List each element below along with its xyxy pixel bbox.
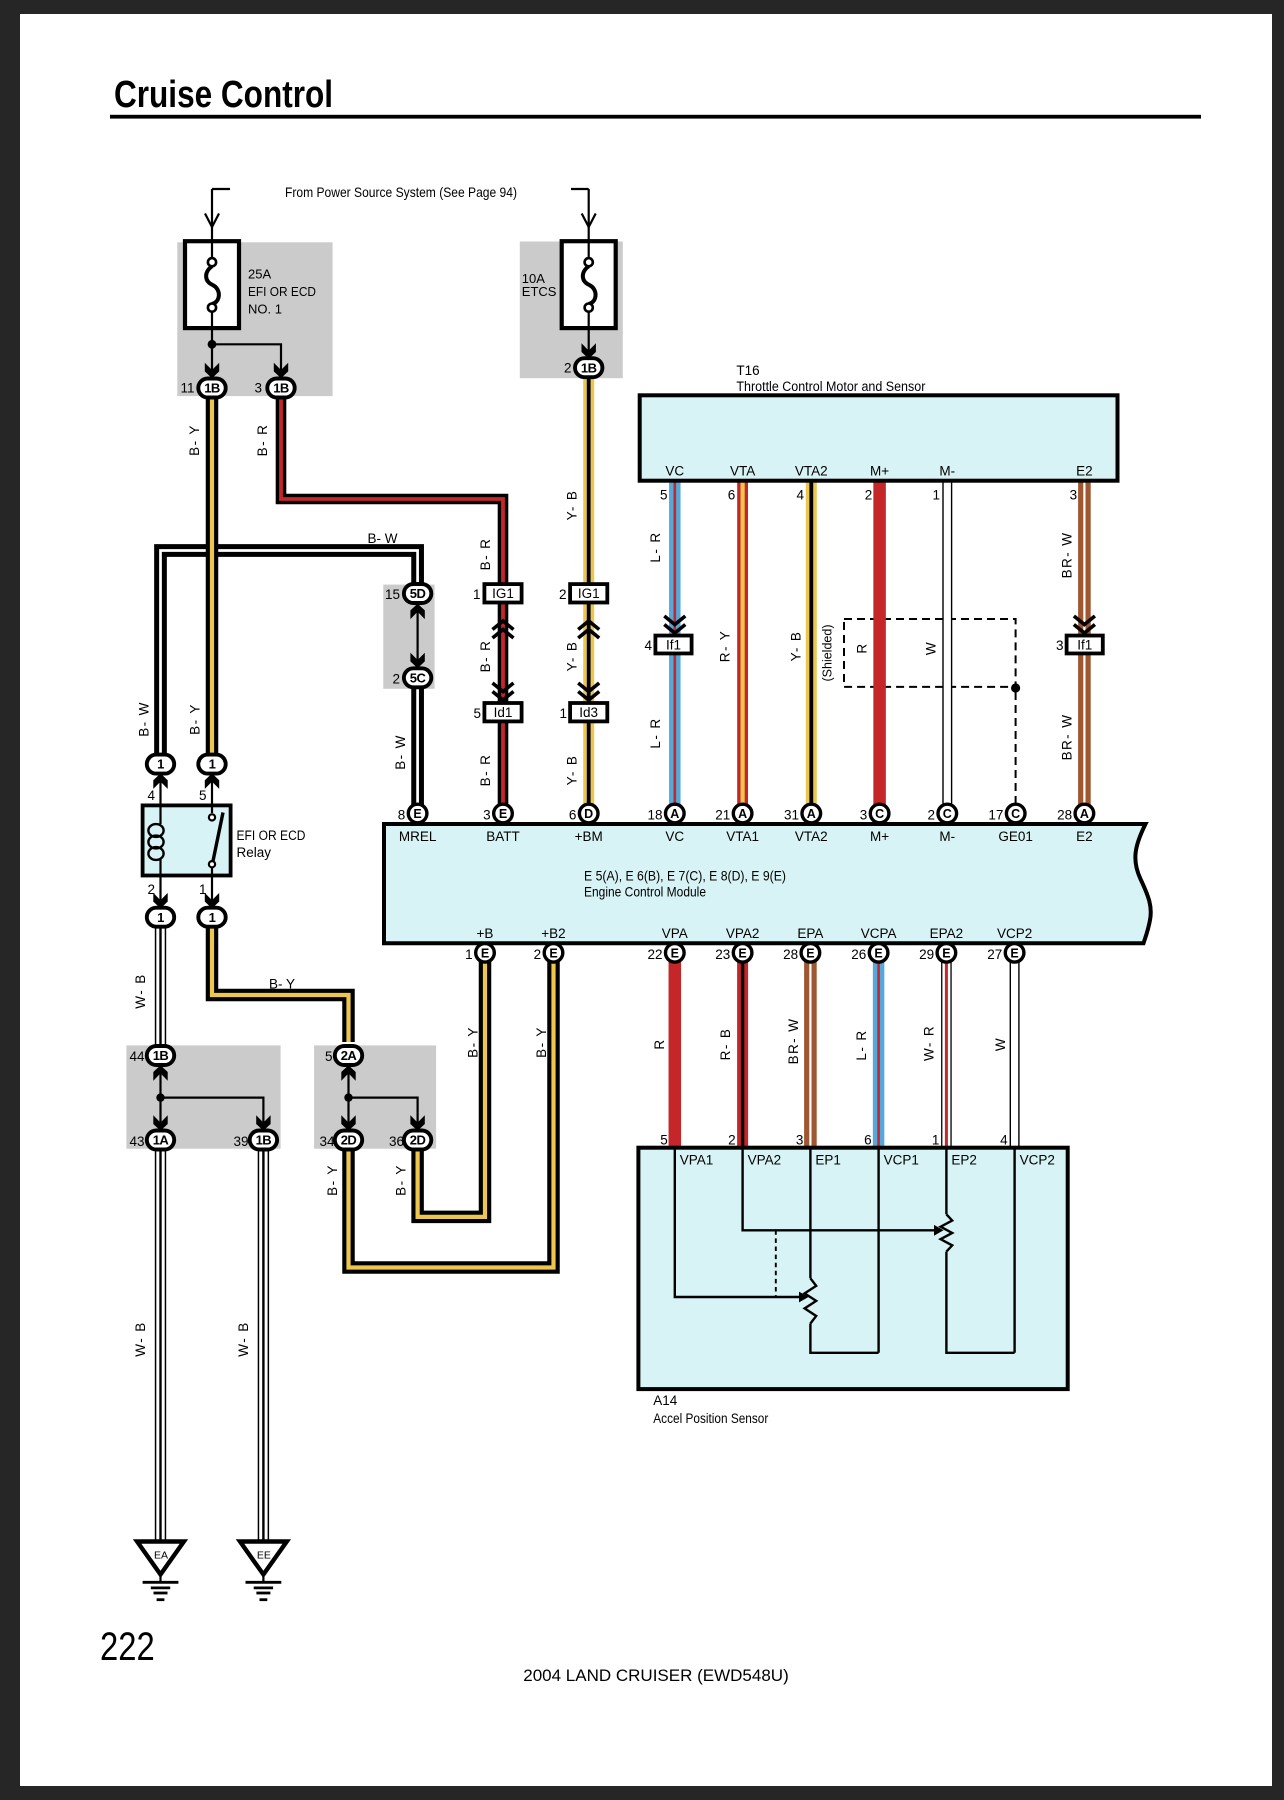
svg-text:2: 2 [147, 882, 155, 897]
svg-text:43: 43 [129, 1134, 144, 1149]
svg-text:EPA2: EPA2 [930, 926, 964, 941]
svg-text:E: E [874, 946, 882, 960]
svg-text:R- B: R- B [718, 1028, 733, 1061]
svg-text:2: 2 [927, 808, 935, 823]
svg-text:5: 5 [660, 1133, 668, 1148]
svg-text:Y- B: Y- B [565, 755, 580, 786]
svg-text:VPA1: VPA1 [680, 1153, 714, 1168]
svg-text:4: 4 [147, 788, 155, 803]
svg-text:2A: 2A [341, 1048, 358, 1063]
svg-text:3: 3 [796, 1133, 804, 1148]
svg-text:5: 5 [199, 788, 207, 803]
svg-text:EP2: EP2 [951, 1153, 977, 1168]
svg-text:44: 44 [129, 1049, 145, 1064]
svg-text:36: 36 [389, 1134, 404, 1149]
svg-text:B- Y: B- Y [269, 977, 295, 992]
svg-text:EPA: EPA [797, 926, 823, 941]
svg-text:B- R: B- R [478, 754, 493, 787]
svg-text:4: 4 [1000, 1133, 1008, 1148]
svg-text:E: E [499, 807, 507, 821]
svg-text:B- R: B- R [478, 538, 493, 571]
svg-text:(Shielded): (Shielded) [821, 625, 835, 682]
svg-text:E: E [413, 807, 421, 821]
svg-text:B- W: B- W [136, 701, 151, 737]
svg-text:M-: M- [939, 829, 955, 844]
svg-text:5: 5 [473, 706, 481, 721]
svg-text:Relay: Relay [237, 845, 272, 860]
svg-text:GE01: GE01 [998, 829, 1033, 844]
svg-text:1: 1 [209, 757, 216, 772]
svg-text:VTA2: VTA2 [795, 464, 828, 479]
svg-text:1B: 1B [256, 1133, 272, 1148]
svg-text:E 5(A), E 6(B), E 7(C), E 8(D): E 5(A), E 6(B), E 7(C), E 8(D), E 9(E) [584, 868, 786, 884]
svg-text:EFI OR ECD: EFI OR ECD [237, 828, 306, 843]
svg-text:5: 5 [660, 488, 668, 503]
svg-text:A: A [807, 807, 816, 821]
svg-text:2D: 2D [341, 1133, 357, 1148]
svg-text:B- R: B- R [478, 640, 493, 673]
svg-text:B- Y: B- Y [187, 424, 202, 456]
svg-text:8: 8 [398, 808, 406, 823]
svg-text:3: 3 [1056, 638, 1064, 653]
svg-text:B- Y: B- Y [534, 1026, 549, 1058]
svg-text:A: A [1080, 807, 1089, 821]
svg-text:25A: 25A [248, 267, 271, 282]
svg-text:29: 29 [919, 947, 934, 962]
svg-text:R- Y: R- Y [718, 630, 733, 662]
svg-text:B- Y: B- Y [325, 1164, 340, 1196]
svg-text:1: 1 [465, 947, 473, 962]
svg-text:E: E [942, 946, 950, 960]
svg-text:EFI OR ECD: EFI OR ECD [248, 284, 316, 299]
svg-text:4: 4 [644, 638, 652, 653]
svg-text:1B: 1B [153, 1048, 169, 1063]
svg-text:Id1: Id1 [494, 705, 513, 720]
svg-text:BR- W: BR- W [1060, 714, 1075, 761]
svg-text:1: 1 [157, 757, 164, 772]
svg-text:IG1: IG1 [578, 586, 600, 601]
svg-text:W- R: W- R [922, 1025, 937, 1061]
svg-text:E: E [481, 946, 489, 960]
svg-text:21: 21 [715, 808, 730, 823]
svg-text:22: 22 [647, 947, 662, 962]
svg-text:ETCS: ETCS [522, 284, 557, 299]
svg-text:VC: VC [665, 464, 684, 479]
svg-text:B- Y: B- Y [188, 703, 203, 735]
svg-text:B- Y: B- Y [466, 1026, 481, 1058]
svg-text:Y- B: Y- B [789, 631, 804, 662]
svg-text:Cruise Control: Cruise Control [114, 74, 333, 116]
svg-text:31: 31 [784, 808, 799, 823]
svg-text:VCP1: VCP1 [884, 1153, 919, 1168]
svg-text:VTA: VTA [730, 464, 755, 479]
svg-text:2: 2 [865, 488, 873, 503]
svg-text:6: 6 [728, 488, 736, 503]
svg-text:2: 2 [728, 1133, 736, 1148]
svg-text:Accel Position Sensor: Accel Position Sensor [653, 1411, 768, 1426]
svg-text:1B: 1B [581, 360, 597, 375]
svg-text:1: 1 [473, 587, 481, 602]
svg-text:B- Y: B- Y [394, 1164, 409, 1196]
svg-text:+B2: +B2 [541, 926, 565, 941]
svg-text:2: 2 [564, 361, 572, 376]
svg-text:BATT: BATT [486, 829, 520, 844]
svg-text:VC: VC [665, 829, 684, 844]
svg-text:11: 11 [180, 381, 194, 396]
svg-text:W- B: W- B [133, 973, 148, 1008]
svg-text:C: C [875, 807, 884, 821]
svg-text:W: W [993, 1037, 1008, 1051]
svg-text:2004 LAND CRUISER (EWD548U): 2004 LAND CRUISER (EWD548U) [523, 1666, 788, 1685]
svg-text:VTA2: VTA2 [795, 829, 828, 844]
svg-text:1: 1 [559, 706, 567, 721]
svg-text:R: R [854, 642, 869, 653]
svg-text:E: E [671, 946, 679, 960]
svg-text:M+: M+ [870, 464, 889, 479]
svg-text:L- R: L- R [648, 717, 663, 748]
svg-text:E: E [738, 946, 746, 960]
svg-text:27: 27 [987, 947, 1002, 962]
svg-text:MREL: MREL [399, 829, 437, 844]
svg-text:W: W [924, 641, 939, 655]
svg-text:VPA: VPA [662, 926, 688, 941]
svg-text:M-: M- [939, 464, 955, 479]
svg-text:R: R [652, 1038, 667, 1049]
svg-text:D: D [584, 807, 593, 821]
svg-text:C: C [943, 807, 952, 821]
svg-text:Y- B: Y- B [565, 641, 580, 672]
svg-text:5C: 5C [410, 670, 427, 685]
svg-text:28: 28 [1057, 808, 1072, 823]
svg-text:3: 3 [483, 808, 491, 823]
svg-text:A14: A14 [653, 1393, 678, 1408]
svg-text:6: 6 [569, 808, 577, 823]
svg-text:2: 2 [534, 947, 542, 962]
svg-text:6: 6 [864, 1133, 872, 1148]
svg-text:VCP2: VCP2 [997, 926, 1032, 941]
svg-text:1B: 1B [273, 381, 289, 396]
svg-text:34: 34 [319, 1134, 335, 1149]
svg-text:B- W: B- W [368, 531, 398, 546]
svg-text:+B: +B [477, 926, 494, 941]
svg-text:VPA2: VPA2 [726, 926, 760, 941]
svg-text:BR- W: BR- W [1060, 532, 1075, 579]
svg-text:VCPA: VCPA [861, 926, 897, 941]
svg-text:17: 17 [988, 808, 1003, 823]
svg-text:W- B: W- B [133, 1321, 148, 1356]
svg-text:Y- B: Y- B [565, 490, 580, 521]
svg-text:T16: T16 [736, 363, 759, 378]
svg-text:VPA2: VPA2 [748, 1153, 782, 1168]
svg-text:1: 1 [199, 882, 207, 897]
svg-text:3: 3 [860, 808, 868, 823]
svg-text:23: 23 [715, 947, 730, 962]
svg-text:1: 1 [209, 910, 216, 925]
svg-text:B- R: B- R [255, 424, 270, 457]
svg-text:Id3: Id3 [579, 705, 598, 720]
svg-text:E2: E2 [1076, 464, 1093, 479]
svg-text:1A: 1A [153, 1133, 170, 1148]
svg-text:L- R: L- R [648, 531, 663, 562]
svg-text:Engine Control Module: Engine Control Module [584, 884, 706, 900]
svg-text:18: 18 [647, 808, 662, 823]
svg-text:E: E [806, 946, 814, 960]
svg-text:E: E [1010, 946, 1018, 960]
svg-text:3: 3 [1070, 488, 1078, 503]
svg-text:EP1: EP1 [815, 1153, 841, 1168]
svg-text:2D: 2D [410, 1133, 426, 1148]
svg-text:Throttle Control Motor and Sen: Throttle Control Motor and Sensor [736, 379, 925, 394]
svg-text:+BM: +BM [575, 829, 603, 844]
svg-text:E: E [549, 946, 557, 960]
svg-text:BR- W: BR- W [786, 1018, 801, 1065]
svg-text:3: 3 [254, 381, 262, 396]
svg-text:C: C [1011, 807, 1020, 821]
svg-text:2: 2 [392, 672, 400, 687]
svg-text:2: 2 [559, 587, 567, 602]
svg-text:39: 39 [233, 1134, 248, 1149]
svg-text:1B: 1B [204, 381, 220, 396]
svg-text:28: 28 [783, 947, 798, 962]
svg-text:222: 222 [100, 1624, 155, 1669]
svg-text:26: 26 [851, 947, 866, 962]
svg-text:L- R: L- R [854, 1029, 869, 1060]
svg-text:E2: E2 [1076, 829, 1093, 844]
svg-text:1: 1 [157, 910, 164, 925]
svg-text:If1: If1 [666, 637, 681, 652]
svg-text:A: A [670, 807, 679, 821]
svg-text:4: 4 [796, 488, 804, 503]
svg-text:M+: M+ [870, 829, 889, 844]
svg-text:5: 5 [325, 1049, 333, 1064]
svg-text:VCP2: VCP2 [1020, 1153, 1055, 1168]
svg-text:B- W: B- W [393, 734, 408, 770]
svg-text:EA: EA [154, 1550, 168, 1562]
svg-text:1: 1 [932, 488, 940, 503]
svg-text:A: A [738, 807, 747, 821]
svg-text:From Power Source System (See: From Power Source System (See Page 94) [285, 184, 517, 200]
svg-text:NO. 1: NO. 1 [248, 302, 282, 317]
svg-text:15: 15 [385, 587, 400, 602]
svg-text:VTA1: VTA1 [726, 829, 759, 844]
svg-text:IG1: IG1 [492, 586, 514, 601]
svg-text:W- B: W- B [236, 1321, 251, 1356]
svg-text:EE: EE [257, 1550, 271, 1562]
svg-text:If1: If1 [1077, 637, 1092, 652]
svg-text:1: 1 [932, 1133, 940, 1148]
svg-text:5D: 5D [410, 586, 426, 601]
